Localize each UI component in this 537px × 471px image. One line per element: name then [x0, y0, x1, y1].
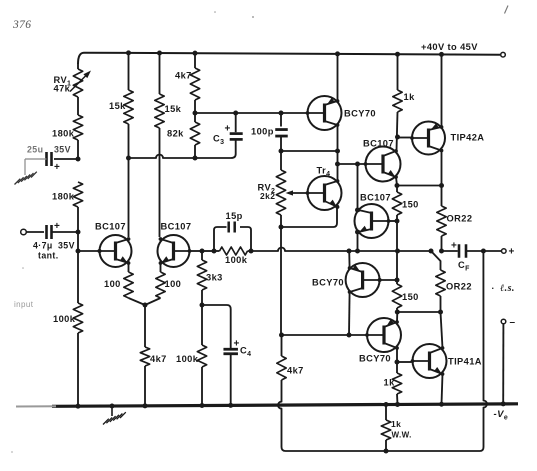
- label 1k bottom: [384, 378, 396, 388]
- node main-Vbe emitter: [355, 249, 360, 254]
- node 3k3 tap: [200, 249, 205, 254]
- resistor R 82k: [190, 122, 199, 145]
- wire collector node to 164: [337, 151, 339, 164]
- node rail-BCY70a: [335, 51, 340, 56]
- wire 281 down through main line: [280, 227, 282, 335]
- node Tr4 emitter junction: [279, 225, 284, 230]
- wire Q1 100 bend: [129, 298, 146, 305]
- wire OR22b bottom: [440, 296, 442, 312]
- wire 15p branch: [214, 227, 251, 251]
- svg-text:OR22: OR22: [447, 214, 473, 224]
- svg-text:1k: 1k: [384, 378, 396, 388]
- node rail-TIP42A: [439, 52, 444, 57]
- svg-text:100k: 100k: [53, 314, 76, 324]
- label 100k input: [53, 314, 76, 324]
- node rail-1k: [395, 52, 400, 57]
- label 2k2: [260, 191, 275, 201]
- svg-text:+: +: [225, 124, 231, 135]
- node rail-15k2: [157, 51, 162, 56]
- wire 1k bottom to collector: [397, 112, 398, 151]
- transistor Q4 BC107 Vbe multiplier: [355, 204, 391, 238]
- node 82k bottom junction: [193, 156, 198, 161]
- wire fb node to BCY70c base: [282, 334, 368, 336]
- label C3: [213, 124, 231, 147]
- label 3k3: [206, 273, 223, 283]
- resistor R 15k first: [124, 90, 133, 124]
- label l.s.: [492, 281, 515, 294]
- node Q1 base: [76, 249, 81, 254]
- node Vbe collector tap: [355, 162, 360, 167]
- resistor R 4k7 top: [190, 68, 199, 100]
- transistor Q6 BCY70 lower driver: [365, 318, 401, 352]
- label 15k first: [109, 101, 126, 111]
- speck top right slash: [505, 6, 509, 14]
- label 180k lower: [52, 192, 75, 202]
- svg-text:ℓ.s.: ℓ.s.: [500, 283, 515, 294]
- wire Q1 emitter lead: [128, 263, 130, 272]
- wire 4k7 fb with hop over rail: [278, 380, 286, 451]
- wire 4k7 top: [194, 53, 196, 68]
- resistor R 1k WW: [381, 405, 390, 451]
- wire Vbe collector up: [357, 164, 359, 210]
- label minus output: [510, 317, 516, 328]
- transistor Q5 BCY70 middle: [346, 263, 382, 297]
- label -Ve: [494, 409, 509, 422]
- label tant: [38, 251, 59, 261]
- node Q5 base lead end: [378, 278, 382, 282]
- node 150b bottom junction: [395, 310, 400, 315]
- wire 185 crossbar: [397, 185, 442, 187]
- node main-biasline: [395, 249, 400, 254]
- svg-text:15k: 15k: [165, 104, 182, 114]
- svg-text:150: 150: [402, 292, 419, 302]
- node Q6 collector junction: [395, 360, 400, 365]
- svg-text:TIP42A: TIP42A: [451, 133, 485, 143]
- label 25u 35V: [27, 145, 71, 155]
- label 150 upper: [402, 200, 419, 210]
- transistor Q8 TIP41A: [411, 344, 447, 378]
- wire 1k top lead: [397, 54, 399, 90]
- label C4: [234, 339, 252, 359]
- label BCY70 first: [344, 109, 376, 119]
- svg-text:W.W.: W.W.: [392, 431, 412, 440]
- node output loop tap: [481, 249, 486, 254]
- svg-text:4k7: 4k7: [287, 366, 304, 376]
- node 25u junction: [76, 157, 81, 162]
- svg-text:100p: 100p: [251, 127, 274, 137]
- resistor R 4k7 tail: [140, 347, 149, 366]
- resistor R 150 upper: [392, 192, 401, 215]
- node Vbe collector: [355, 208, 360, 213]
- node TIP41A collector junction: [438, 310, 443, 315]
- wire 150b leads: [396, 280, 398, 312]
- resistor R 1k driver bottom: [392, 373, 401, 394]
- transistor Q3 BC107 upper driver: [364, 147, 401, 182]
- wire Q6 emitter up: [396, 312, 398, 322]
- wire C4 branch: [202, 305, 231, 349]
- svg-text:BCY70: BCY70: [344, 109, 376, 119]
- resistor R OR22 lower: [436, 270, 445, 296]
- wire node151 to BCY70a collector: [281, 150, 338, 152]
- node VAS base node: [279, 149, 284, 154]
- svg-text:1k: 1k: [391, 419, 401, 429]
- label plus output: [509, 247, 515, 258]
- svg-text:100k: 100k: [225, 255, 248, 265]
- ground input bias: [15, 172, 37, 185]
- wire 100k input leg top: [77, 251, 79, 303]
- wire minus terminal to rail: [502, 324, 504, 404]
- label OR22 upper: [447, 214, 473, 224]
- wire Q6 collector down: [396, 348, 398, 362]
- svg-text:150: 150: [402, 200, 419, 210]
- label BC107 upper driver: [363, 139, 394, 149]
- node BCY70c base: [347, 333, 352, 338]
- svg-text:35V: 35V: [58, 241, 75, 251]
- wire Q1 base lead: [78, 250, 100, 252]
- resistor R 180k lower: [73, 182, 82, 207]
- terminal loudspeaker minus: [501, 319, 506, 324]
- wire OR22b jog from output node: [431, 251, 441, 270]
- resistor R 100k feedback: [220, 247, 248, 255]
- wire 180k-node: [77, 140, 79, 159]
- wire OR22a leads: [441, 186, 443, 252]
- svg-text:4k7: 4k7: [175, 71, 192, 81]
- label BCY70 middle: [312, 278, 344, 288]
- node Vbe emitter: [355, 230, 360, 235]
- capacitor 15p: [229, 222, 235, 233]
- wire loop right riser with hop: [480, 253, 487, 451]
- node 15p branch right: [249, 249, 254, 254]
- node Q3 emitter junction: [395, 183, 400, 188]
- capacitor 4.7u 35V input: [47, 221, 61, 239]
- wire Q1 collector riser: [128, 158, 130, 237]
- wire 15k2 top: [159, 53, 161, 94]
- capacitor C3: [230, 134, 243, 140]
- capacitor 100p: [275, 130, 288, 137]
- wire 25u cap lead: [54, 158, 78, 160]
- label RV2: [258, 183, 276, 196]
- wire 100k shunt leads: [201, 305, 203, 406]
- resistor R 15k second: [155, 94, 164, 128]
- wire 15k1 top: [128, 53, 130, 90]
- wire 1k drv to rail: [396, 394, 399, 404]
- wire node to base node: [77, 232, 79, 251]
- node brail-100kc: [200, 403, 205, 408]
- potentiometer RV1 47k: [70, 69, 91, 97]
- resistor R 180k upper: [73, 115, 82, 140]
- label 4k7 top: [175, 71, 192, 81]
- wire 82k leads: [194, 113, 196, 158]
- wire TIP42A base lead: [398, 137, 413, 139]
- label BC107 Vbe: [360, 193, 391, 203]
- wire TIP42A emitter to rail: [441, 54, 443, 127]
- node main-OR22a: [439, 249, 444, 254]
- svg-text:15p: 15p: [226, 211, 243, 221]
- wire bottom loop: [286, 450, 481, 452]
- label BC107 Q2: [161, 222, 192, 232]
- label 4k7 tail: [150, 354, 167, 364]
- node brail-4k7b: [143, 403, 148, 408]
- svg-text:+: +: [234, 339, 240, 350]
- wire main line left segment: [214, 250, 220, 252]
- label 100 Q1: [104, 279, 121, 289]
- resistor R 100 Q1: [124, 272, 133, 298]
- wire C3 top lead: [235, 113, 237, 132]
- wire RV1 top: [77, 63, 79, 69]
- ground bottom: [103, 406, 126, 424]
- wire tail down: [144, 305, 146, 347]
- node TIP42A base tap: [395, 135, 400, 140]
- label page 376: [12, 19, 31, 31]
- svg-text:100k: 100k: [176, 354, 199, 364]
- wire Q2 100 bend: [145, 298, 161, 305]
- label TIP41A: [448, 357, 482, 367]
- label 1k top: [404, 92, 416, 102]
- wire 4k7 fb top: [281, 335, 283, 356]
- wire TIP41A base lead: [397, 361, 412, 363]
- svg-text:4k7: 4k7: [150, 354, 167, 364]
- svg-text:–: –: [510, 317, 516, 328]
- transistor U1 BCY70 first: [306, 96, 342, 130]
- wire Q5 base lead ext: [380, 279, 397, 281]
- wire y158 with hop over 159.5: [129, 155, 196, 158]
- wire +40V supply rail: [78, 53, 500, 64]
- node brail-minusterm: [501, 401, 506, 406]
- wire 150a top lead: [396, 186, 398, 193]
- wire Q5 emitter up: [348, 251, 350, 268]
- resistor R 100 Q2: [156, 272, 165, 298]
- resistor R 150 lower: [392, 284, 401, 308]
- wire Q5 collector down: [348, 292, 351, 335]
- node main-BCY70b emitter: [347, 249, 352, 254]
- wire 100k to rail: [77, 333, 79, 406]
- wire 4k7 bottom: [194, 100, 196, 113]
- svg-text:BCY70: BCY70: [359, 354, 391, 364]
- svg-text:82k: 82k: [167, 129, 184, 139]
- svg-text:100: 100: [104, 279, 121, 289]
- label OR22 lower: [446, 282, 472, 292]
- label 4.7u 35V: [33, 241, 75, 251]
- terminal loudspeaker plus: [502, 249, 507, 254]
- node brail-TIP41A: [439, 402, 444, 407]
- resistor R 100k shunt: [197, 345, 206, 367]
- node 1kWW bottom: [384, 449, 389, 454]
- resistor R 4k7 feedback: [277, 356, 286, 380]
- node BCY70b base node: [395, 278, 400, 283]
- node Tr4 collector junction: [335, 162, 340, 167]
- wire 100p top lead: [280, 113, 282, 127]
- wire 3k3 leads: [201, 251, 203, 305]
- label +40V to 45V: [421, 42, 478, 52]
- node rail-4k7: [193, 51, 198, 56]
- svg-text:BC107: BC107: [363, 139, 394, 149]
- wire TIP41A collector up: [441, 312, 443, 348]
- svg-text:180k: 180k: [52, 129, 75, 139]
- speck top mid: [214, 11, 254, 18]
- resistor R 100k input: [73, 303, 82, 333]
- wire RV2 bottom: [280, 215, 282, 227]
- node input cap junction: [76, 230, 81, 235]
- node C3 tap: [233, 111, 238, 116]
- wire C4 to rail: [230, 354, 232, 405]
- svg-text:OR22: OR22: [446, 282, 472, 292]
- svg-text:+40V to 45V: +40V to 45V: [421, 42, 478, 52]
- wire 180k-input node: [77, 207, 79, 232]
- svg-text:+: +: [54, 162, 60, 173]
- node Vbe base node: [395, 219, 400, 224]
- wire 1k drv top: [396, 362, 398, 373]
- capacitor 25u 35V: [47, 152, 61, 173]
- wire -Ve bottom rail: [16, 404, 518, 407]
- svg-text:47k: 47k: [54, 84, 71, 94]
- wire tail to rail: [144, 366, 146, 406]
- capacitor C4: [223, 349, 238, 354]
- label TIP42A: [451, 133, 485, 143]
- node brail-100k: [76, 404, 81, 409]
- node brail-1kdrv: [395, 402, 400, 407]
- wire Vbe base ext: [389, 220, 398, 222]
- wire 100p bottom lead: [280, 136, 282, 151]
- node emitter junction: [143, 303, 148, 308]
- svg-text:25u: 25u: [27, 145, 43, 155]
- wire fb line to 15p node: [202, 250, 214, 252]
- label 4k7 feedback: [287, 366, 304, 376]
- svg-text:TIP41A: TIP41A: [448, 357, 482, 367]
- node 15p branch left: [212, 249, 217, 254]
- wire node113 to BCY70a base: [195, 112, 308, 114]
- node brail-1kWW: [384, 402, 389, 407]
- resistor R 1k driver top: [393, 90, 402, 112]
- wire main line to CF: [442, 250, 458, 252]
- label 180k upper: [52, 129, 75, 139]
- svg-text:35V: 35V: [54, 145, 71, 155]
- svg-text:3k3: 3k3: [206, 273, 223, 283]
- label 82k: [167, 129, 184, 139]
- svg-text:100: 100: [165, 279, 182, 289]
- transistor Q7 TIP42A: [410, 122, 445, 155]
- label 100 Q2: [165, 279, 182, 289]
- node 100p top: [279, 111, 284, 116]
- wire input lead: [26, 231, 44, 233]
- label BC107 Q1: [95, 222, 126, 232]
- node TIP42A collector junction: [439, 183, 444, 188]
- label input: [14, 300, 34, 309]
- node BCY70a collector junction: [335, 149, 340, 154]
- wire main line mid: [349, 250, 431, 252]
- transistor Q1 BC107 input left: [98, 235, 132, 267]
- wire input cap to node: [52, 231, 79, 233]
- wire Vbe emitter down: [357, 232, 359, 251]
- wire Q3 emitter down: [396, 177, 397, 186]
- label 150 lower: [402, 292, 419, 302]
- svg-text:BC107: BC107: [360, 193, 391, 203]
- wire Q2 collector riser: [159, 128, 161, 237]
- label 100p: [251, 127, 274, 137]
- node feedback junction: [279, 333, 284, 338]
- label BCY70 lower driver: [359, 354, 391, 364]
- wire node164 to BC107c base: [338, 163, 366, 165]
- wire TIP42A collector down: [441, 151, 443, 186]
- svg-text:376: 376: [12, 19, 31, 31]
- wire CF to terminal: [466, 250, 502, 252]
- label 100k feedback: [225, 255, 248, 265]
- transistor Tr4 VAS: [306, 176, 342, 210]
- label 1k WW: [391, 419, 412, 440]
- node 3k3 bottom junction: [200, 303, 205, 308]
- wire 15k1 bottom: [128, 124, 130, 158]
- svg-text:4·7μ: 4·7μ: [33, 241, 53, 251]
- label RV1: [54, 75, 72, 88]
- label 100k shunt: [176, 354, 199, 364]
- wire Tr4 collector riser: [337, 164, 339, 181]
- wire Tr4 base to RV2 wiper: [288, 192, 308, 194]
- svg-text:BC107: BC107: [95, 222, 126, 232]
- speck left margin: [11, 267, 24, 453]
- wire Q2 base lead: [190, 250, 203, 252]
- svg-text:+: +: [509, 247, 515, 258]
- svg-text:15k: 15k: [109, 101, 126, 111]
- svg-text:.: .: [492, 281, 495, 291]
- wire C3 bottom lead: [195, 140, 236, 158]
- node rail-15k1: [126, 50, 131, 55]
- wire TIP41A emitter to rail: [442, 374, 443, 404]
- wire Tr4 emitter return: [281, 207, 337, 227]
- node Tr4 emitter lead end: [335, 205, 339, 209]
- svg-text:input: input: [14, 300, 34, 309]
- node 4k7-82k junction: [193, 111, 198, 116]
- svg-text:BC107: BC107: [161, 222, 192, 232]
- transistor Q2 BC107 input right: [158, 235, 192, 267]
- node Q1 base lead end: [98, 249, 102, 253]
- node brail-C4: [228, 403, 233, 408]
- terminal input: [21, 229, 27, 235]
- wire 312 crossbar: [397, 311, 440, 313]
- svg-text:+: +: [451, 241, 457, 252]
- label Tr4: [317, 166, 331, 179]
- node 15k1-82k junction: [126, 156, 131, 161]
- svg-text:tant.: tant.: [38, 251, 59, 261]
- label 47k: [54, 84, 71, 94]
- capacitor CF: [459, 244, 466, 258]
- svg-text:180k: 180k: [52, 192, 75, 202]
- wire 150a bottom: [396, 215, 398, 221]
- svg-text:2k2: 2k2: [260, 191, 275, 201]
- node main-OR22b: [429, 249, 434, 254]
- wire BCY70a collector down: [337, 125, 339, 151]
- terminal +V supply: [501, 52, 506, 57]
- potentiometer RV2 2k2: [276, 151, 293, 215]
- svg-text:BCY70: BCY70: [312, 278, 344, 288]
- wire Q2 emitter lead: [160, 263, 162, 272]
- wire RV1-180k: [77, 97, 79, 115]
- wire BCY70a emitter to rail: [337, 54, 339, 101]
- label CF: [451, 241, 470, 273]
- label 15p: [226, 211, 243, 221]
- svg-text:+: +: [54, 221, 60, 232]
- label 15k second: [165, 104, 182, 114]
- svg-text:1k: 1k: [404, 92, 416, 102]
- wire bias line 221-280: [396, 221, 398, 280]
- wire 25u to ground: [25, 159, 47, 175]
- resistor R 3k3: [197, 260, 206, 290]
- node brail-gnd: [110, 404, 115, 409]
- wire main line with hop at 281: [248, 248, 350, 252]
- resistor R OR22 upper: [437, 206, 446, 236]
